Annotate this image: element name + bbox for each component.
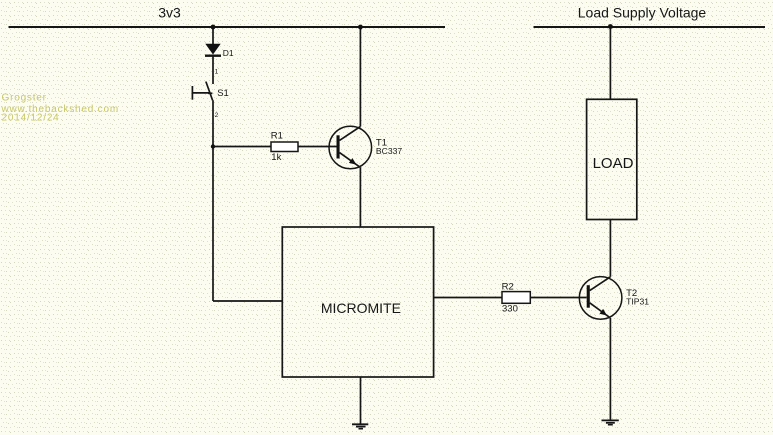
svg-text:S1: S1 (217, 88, 229, 99)
svg-text:R1: R1 (271, 131, 283, 142)
svg-text:MICROMITE: MICROMITE (321, 300, 401, 316)
svg-text:330: 330 (502, 303, 518, 314)
svg-text:2: 2 (215, 112, 219, 119)
svg-text:1k: 1k (271, 152, 281, 163)
svg-text:LOAD: LOAD (593, 155, 634, 172)
svg-text:TIP31: TIP31 (626, 297, 649, 307)
svg-text:BC337: BC337 (376, 146, 402, 156)
svg-text:3v3: 3v3 (158, 4, 181, 20)
svg-text:D1: D1 (223, 48, 234, 58)
svg-text:Grogster: Grogster (2, 92, 47, 103)
svg-text:Load Supply Voltage: Load Supply Voltage (578, 5, 707, 21)
svg-text:R2: R2 (502, 281, 514, 292)
svg-text:1: 1 (215, 69, 219, 76)
svg-text:2014/12/24: 2014/12/24 (2, 113, 60, 124)
